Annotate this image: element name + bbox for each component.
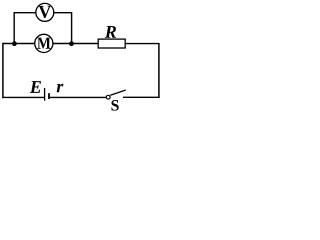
wire: main horizontal run through motor from left corner to resistor <box>3 43 99 45</box>
wire: top-right run from resistor to right corner <box>125 43 159 45</box>
wire: bottom run from left corner to battery <box>2 96 44 98</box>
wire: bottom run from battery to switch <box>49 96 107 98</box>
wire: bottom run from switch to right corner <box>123 96 160 98</box>
motor M: circle <box>35 34 53 52</box>
wire: voltmeter parallel branch (left riser, top run, right riser) <box>14 13 71 44</box>
wire: left vertical side of loop <box>2 43 4 98</box>
junction dot left (node joining voltmeter branch to main run) <box>12 41 17 46</box>
battery label r (internal resistance) <box>57 84 64 92</box>
resistor R: box <box>98 39 125 48</box>
battery label E (emf) <box>30 81 41 93</box>
switch S: blade arm <box>110 90 126 95</box>
junction dot right (node joining voltmeter branch to main run) <box>69 41 74 46</box>
voltmeter V: circle <box>36 3 54 21</box>
resistor R: label <box>105 26 116 38</box>
switch S: label <box>111 100 118 111</box>
battery: short negative plate <box>48 93 50 99</box>
motor M: letter label <box>37 38 50 49</box>
switch S: pivot contact circle <box>106 95 110 99</box>
wire: right vertical side of loop <box>158 44 160 98</box>
voltmeter V: letter label <box>39 6 52 18</box>
battery: long positive plate <box>44 88 46 101</box>
